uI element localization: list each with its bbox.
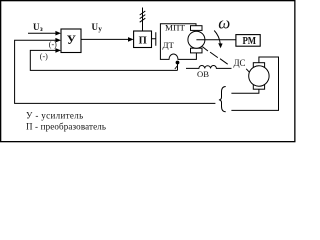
svg-text:ОВ: ОВ	[197, 69, 209, 79]
wire speed feedback (bottom line to upper minus input)	[15, 40, 216, 103]
wire armature circuit loop МПТ	[160, 24, 196, 60]
brace gathering ДС wires	[219, 87, 226, 112]
tacho ДС brushes	[253, 63, 264, 68]
load block РМ	[236, 35, 260, 47]
wire У to П	[81, 38, 130, 40]
svg-text:ДС: ДС	[234, 58, 246, 68]
field winding ОВ wire and coils	[186, 65, 232, 68]
wire ДС top loop	[231, 57, 278, 110]
dashed mechanical coupling to ДС	[202, 47, 208, 51]
wire dot to current feedback line	[177, 63, 179, 71]
supply symbol above П	[142, 8, 144, 32]
svg-text:МПТ: МПТ	[165, 23, 186, 33]
svg-text:РМ: РМ	[243, 36, 257, 47]
wire current feedback from ДТ	[30, 50, 177, 70]
wire Uз input	[28, 32, 58, 34]
motor МПТ circle	[188, 31, 205, 48]
wire ДС bottom terminal	[231, 89, 259, 93]
wire П to armature (connector tab)	[152, 32, 156, 45]
junction dot ДТ tap	[176, 61, 180, 65]
motor brushes	[191, 26, 203, 31]
svg-text:П: П	[139, 36, 147, 47]
svg-text:У: У	[67, 33, 76, 47]
border frame	[1, 1, 295, 142]
tacho ДС circle	[249, 66, 269, 86]
svg-text:П - преобразователь: П - преобразователь	[26, 121, 106, 131]
omega direction arrow	[214, 31, 220, 45]
converter block П	[134, 31, 152, 48]
wire motor shaft to РМ	[196, 39, 236, 41]
svg-text:ω: ω	[218, 14, 230, 33]
svg-text:ДТ: ДТ	[163, 40, 175, 50]
svg-text:У - усилитель: У - усилитель	[26, 110, 84, 120]
svg-text:(-): (-)	[40, 52, 48, 61]
amplifier block У	[61, 29, 81, 53]
